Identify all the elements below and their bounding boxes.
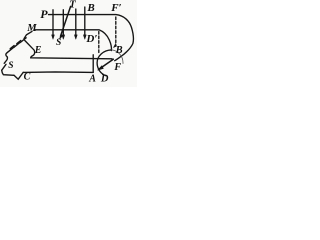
- svg-text:M: M: [26, 23, 37, 34]
- svg-text:E: E: [34, 45, 42, 56]
- wire kink near C: [14, 72, 23, 79]
- wire from M to battery: [24, 31, 32, 38]
- vertical wire above A: [92, 55, 94, 73]
- battery E plates: [7, 38, 26, 53]
- dashed drop line from F' to loop top B: [115, 17, 117, 43]
- bottom wire from C to corner A: [23, 71, 93, 74]
- svg-text:B: B: [115, 45, 123, 56]
- field arrow 4: [84, 7, 86, 36]
- svg-text:B: B: [86, 2, 94, 14]
- rail P to F' with outer ramp sweeping to F: [49, 15, 134, 61]
- svg-text:P: P: [40, 7, 48, 21]
- svg-text:S: S: [56, 38, 61, 48]
- wire battery to switch (hook): [4, 52, 7, 63]
- arrowhead at end of drop line: [113, 44, 116, 48]
- switch S blade: [2, 64, 6, 70]
- long middle wire from E toward loop: [25, 40, 112, 58]
- dashed drop line from D' to loop left: [98, 32, 100, 55]
- field arrow 1: [52, 10, 54, 36]
- rod end arrowhead: [60, 35, 63, 39]
- sliding rod TS: [61, 6, 71, 36]
- field arrow 3: [75, 9, 77, 36]
- svg-text:T: T: [69, 0, 76, 10]
- svg-text:D: D: [100, 74, 109, 85]
- svg-text:D′: D′: [85, 33, 97, 45]
- radius arrow inside loop: [100, 59, 114, 68]
- rail M to inner ramp joining loop top: [34, 30, 112, 51]
- field arrow 2: [62, 10, 64, 36]
- circular loop (arc, bottom-right open): [97, 50, 111, 76]
- wire switch down to bottom corner: [2, 70, 14, 75]
- svg-text:C: C: [24, 72, 31, 83]
- svg-text:S: S: [8, 61, 13, 71]
- svg-text:A: A: [88, 74, 96, 85]
- loop right side (faint): [111, 50, 123, 64]
- svg-text:F′: F′: [110, 2, 121, 14]
- svg-text:F: F: [113, 62, 121, 73]
